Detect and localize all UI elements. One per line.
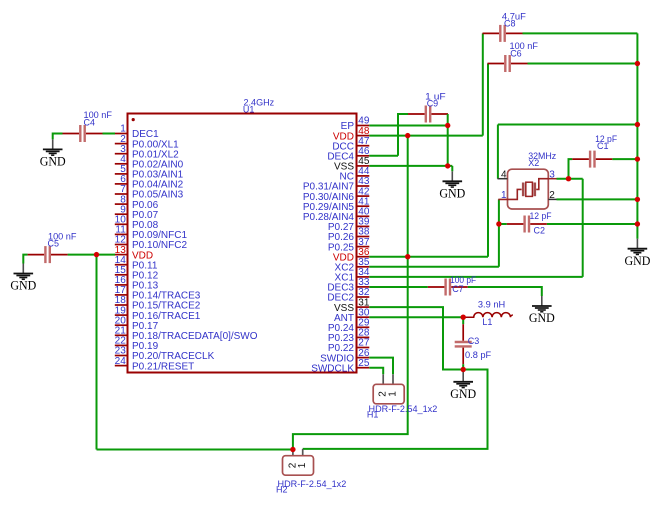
U1 pin 34 (XC1) right stub + number + name [335, 267, 370, 284]
U1 pin 43 (P0.31/AIN7) right stub + number + name [303, 176, 370, 193]
U1 pin 31 (VSS) right stub + number + name [334, 297, 370, 314]
svg-text:X2: X2 [528, 158, 539, 168]
U1 pin 38 (P0.26) right stub + number + name [328, 227, 370, 244]
crystal X2 [498, 169, 548, 209]
junction C2 right on GND rail [635, 221, 640, 226]
svg-text:24: 24 [115, 356, 127, 367]
wire GND to C4 left [53, 134, 63, 140]
junction VDD at H2 pin2 [290, 447, 295, 452]
header H1 pin 1 stub [392, 374, 394, 384]
wire U1 pin25 SWDCLK to H1 pin2 [369, 368, 383, 375]
wire U1 pin26 SWDIO to H1 pin1 [369, 358, 393, 375]
svg-text:1: 1 [297, 462, 308, 468]
wire GND to C5 left [23, 255, 27, 264]
U1 pin 5 (P0.03/AIN1) left stub + number + name [115, 164, 184, 181]
wire crystal pin3 junction up to C1 left [569, 159, 573, 179]
wire crystal pin3 to XC1 riser [557, 178, 583, 180]
junction crystal pin3 / C1 left [566, 176, 571, 181]
junction VDD at C5/pin13 [94, 252, 99, 257]
header H1 body [373, 384, 404, 404]
wire U1 pin35 XC2 [369, 266, 499, 268]
U1 pin-1 orientation dot [132, 118, 135, 121]
svg-text:2: 2 [549, 190, 555, 201]
svg-text:GND: GND [529, 311, 555, 325]
svg-text:C8: C8 [504, 18, 516, 28]
inductor L1 [465, 313, 513, 318]
U1 pin 47 (DCC) right stub + number + name [332, 136, 370, 153]
junction ANT/L1/C3 [461, 315, 466, 320]
wire U1 pin48 VDD to C8 left riser [369, 135, 483, 137]
wire XC1 riser to crystal pin3 [582, 179, 584, 277]
U1 pin 40 (P0.28/AIN4) right stub + number + name [303, 207, 370, 224]
U1 pin 25 (SWDCLK) right stub + number + name [311, 358, 370, 375]
junction C2 left on XC2 riser [496, 221, 501, 226]
wire C7 right to GND [468, 287, 542, 296]
U1 pin 13 (VDD) left stub + number + name [115, 245, 153, 261]
U1 pin 4 (P0.02/AIN0) left stub + number + name [115, 154, 184, 171]
capacitor C2 [507, 216, 547, 233]
wire XC2 riser to crystal pin1 [498, 199, 500, 266]
capacitor C3 [455, 324, 472, 364]
junction EP wire and C9 riser [445, 123, 450, 128]
svg-text:L1: L1 [482, 317, 492, 327]
U1 pin 27 (P0.22) right stub + number + name [328, 338, 370, 355]
U1 pin 14 (P0.11) left stub + number + name [115, 255, 158, 272]
svg-text:1: 1 [501, 190, 507, 201]
wire U1 pin33 DEC3 to C7 left [369, 286, 428, 288]
svg-text:25: 25 [358, 358, 370, 369]
U1 pin 26 (SWDIO) right stub + number + name [320, 348, 370, 365]
svg-text:C2: C2 [534, 225, 546, 235]
capacitor C4 [63, 125, 103, 142]
U1 pin 15 (P0.12) left stub + number + name [115, 265, 159, 282]
wire C4 right to U1 pin1 DEC1 [103, 133, 116, 135]
svg-text:12 pF: 12 pF [530, 211, 552, 221]
U1 pin 16 (P0.13) left stub + number + name [115, 275, 159, 292]
svg-text:HDR-F-2.54_1x2: HDR-F-2.54_1x2 [369, 404, 438, 414]
capacitor C7 [428, 279, 468, 296]
wire riser to C8 left [482, 33, 484, 135]
U1 pin 35 (XC2) right stub + number + name [335, 257, 370, 274]
capacitor C9 [408, 106, 448, 123]
U1 pin 42 (P0.30/AIN6) right stub + number + name [303, 186, 370, 203]
svg-text:1: 1 [388, 391, 399, 397]
header H2 pin 2 stub [292, 450, 294, 456]
junction crystal pin2 on GND rail [635, 197, 640, 202]
wire U1 pin31 VSS around to H2 pin1 [303, 307, 488, 449]
U1 pin 12 (P0.10/NFC2) left stub + number + name [115, 235, 188, 252]
U1 pin 29 (P0.24) right stub + number + name [328, 318, 370, 335]
wire riser to C6 left [487, 64, 489, 257]
ground symbol at C5 [10, 264, 36, 293]
U1 pin 44 (NC) right stub + number + name [340, 166, 370, 183]
junction C6 right on GND rail [635, 61, 640, 66]
capacitor C1 [572, 151, 612, 168]
wire U1 pin30 ANT to L1 [369, 316, 464, 318]
wire C1 right to GND rail [612, 158, 637, 160]
ground symbol at C7 [529, 296, 555, 325]
wire VDD net bottom run to H2 [97, 449, 293, 451]
svg-text:C5: C5 [48, 239, 60, 249]
svg-text:GND: GND [10, 279, 36, 293]
wire GND jumper top of crystal to rail [498, 124, 638, 126]
U1 pin 3 (P0.01/XL2) left stub + number + name [115, 144, 179, 161]
wire crystal pin2 to GND rail [557, 198, 638, 200]
wire VDD net riser H2 to pin48 row [293, 136, 408, 450]
capacitor C8 [483, 25, 523, 42]
U1 pin 36 (VDD) right stub + number + name [333, 247, 370, 264]
U1 pin 49 (EP) right stub + number + name [341, 116, 370, 133]
U1 pin 30 (ANT) right stub + number + name [334, 307, 370, 324]
svg-text:GND: GND [439, 187, 465, 201]
svg-text:C7: C7 [452, 284, 464, 294]
U1 pin 22 (P0.19) left stub + number + name [115, 336, 159, 353]
U1 pin 10 (P0.08) left stub + number + name [115, 215, 159, 232]
U1 pin 41 (P0.29/AIN5) right stub + number + name [303, 196, 370, 213]
header H1 pin 2 stub [382, 374, 384, 384]
U1 pin 17 (P0.14/TRACE3) left stub + number + name [115, 285, 201, 302]
svg-text:H2: H2 [276, 485, 288, 495]
U1 pin 9 (P0.07) left stub + number + name [115, 204, 159, 221]
U1 pin 32 (DEC2) right stub + number + name [327, 287, 370, 304]
crystal X2 pin 2 stub [548, 198, 556, 200]
junction VSS45 wire and C9 riser [445, 163, 450, 168]
U1 pin 21 (P0.18/TRACEDATA[0]/SWO) left stub + number + name [115, 326, 258, 343]
junction VDD riser at pin48 [405, 133, 410, 138]
wire C8 right to GND rail [523, 32, 638, 34]
svg-text:C6: C6 [510, 49, 522, 59]
svg-text:P0.21/RESET: P0.21/RESET [132, 361, 194, 372]
junction C1 right on GND rail [635, 156, 640, 161]
wire VDD net vertical drop at x=96 [96, 255, 98, 450]
U1 pin 24 (P0.21/RESET) left stub + number + name [115, 356, 195, 373]
wire U1 pin45 VSS to GND [369, 165, 452, 167]
svg-text:GND: GND [450, 387, 476, 401]
wire DEC4 riser to C9 left [398, 114, 408, 156]
U1 pin 33 (DEC3) right stub + number + name [327, 277, 370, 294]
U1 pin 37 (P0.25) right stub + number + name [328, 237, 370, 254]
wire C6 right to GND rail [528, 63, 638, 65]
U1 pin 28 (P0.23) right stub + number + name [328, 328, 370, 345]
ground symbol at VSS pin45 [439, 171, 465, 200]
wire ANT junction down to C3 top [462, 317, 464, 324]
svg-text:GND: GND [624, 254, 650, 268]
U1 pin 45 (VSS) right stub + number + name [334, 156, 370, 173]
U1 pin 23 (P0.20/TRACECLK) left stub + number + name [115, 346, 215, 363]
U1 pin 11 (P0.09/NFC1) left stub + number + name [115, 225, 188, 242]
svg-text:C4: C4 [84, 117, 96, 127]
U1 pin 48 (VDD) right stub + number + name [333, 126, 370, 143]
wire U1 pin34 XC1 [369, 276, 582, 278]
U1 pin 6 (P0.04/AIN2) left stub + number + name [115, 174, 184, 191]
svg-text:C3: C3 [468, 336, 480, 346]
junction VDD riser at pin36 [405, 254, 410, 259]
U1 pin 1 (DEC1) left stub + number + name [115, 124, 159, 141]
svg-text:3: 3 [549, 169, 555, 180]
svg-text:3.9 nH: 3.9 nH [478, 299, 505, 309]
header H2 body [283, 456, 314, 476]
capacitor C6 [488, 55, 528, 72]
U1 pin 19 (P0.16/TRACE1) left stub + number + name [115, 305, 201, 322]
junction GND jumper on GND rail [635, 122, 640, 127]
junction C3 bottom / VSS31 run [461, 367, 466, 372]
U1 pin 18 (P0.15/TRACE2) left stub + number + name [115, 295, 201, 312]
ground symbol at C3 [450, 372, 476, 401]
wire U1 pin36 VDD to C6 left riser [369, 256, 488, 258]
svg-text:C1: C1 [597, 141, 609, 151]
op-amp U1 body (2.4GHz MCU rectangle) [128, 114, 357, 373]
svg-text:HDR-F-2.54_1x2: HDR-F-2.54_1x2 [278, 479, 347, 489]
wire U1 pin49 EP [369, 125, 447, 127]
capacitor C5 [28, 246, 68, 263]
wire GND rail vertical [636, 33, 638, 238]
U1 pin 46 (DEC4) right stub + number + name [327, 146, 370, 163]
wire C9 right riser to VSS row [447, 114, 449, 166]
svg-text:C9: C9 [427, 99, 439, 109]
wire C5 right to U1 pin13 VDD [68, 254, 115, 256]
wire crystal pin4 riser to GND jumper [497, 125, 499, 179]
crystal X2 pin 3 stub [548, 178, 556, 180]
wire C2 left to XC2 riser [499, 223, 507, 225]
wire U1 pin46 DEC4 [369, 155, 398, 157]
U1 pin 20 (P0.17) left stub + number + name [115, 315, 159, 332]
wire C2 right to GND rail [547, 223, 638, 225]
svg-text:H1: H1 [367, 410, 379, 420]
wire VSS GND drop [451, 166, 453, 171]
svg-text:SWDCLK: SWDCLK [311, 363, 354, 374]
header H2 pin 1 stub [302, 449, 304, 456]
svg-text:GND: GND [40, 155, 66, 169]
U1 pin 2 (P0.00/XL1) left stub + number + name [115, 134, 179, 151]
svg-text:4: 4 [501, 169, 507, 180]
ground symbol at C4 [40, 139, 66, 168]
U1 pin 8 (P0.06) left stub + number + name [115, 194, 159, 211]
wire C3 bottom to GND junction [462, 364, 464, 372]
U1 pin 39 (P0.27) right stub + number + name [328, 217, 370, 234]
crystal X2 pin 4 stub [498, 178, 508, 180]
U1 pin 7 (P0.05/AIN3) left stub + number + name [115, 184, 184, 201]
svg-text:U1: U1 [243, 105, 255, 115]
ground symbol at GND rail bottom right [624, 239, 650, 268]
svg-text:0.8 pF: 0.8 pF [465, 350, 492, 360]
